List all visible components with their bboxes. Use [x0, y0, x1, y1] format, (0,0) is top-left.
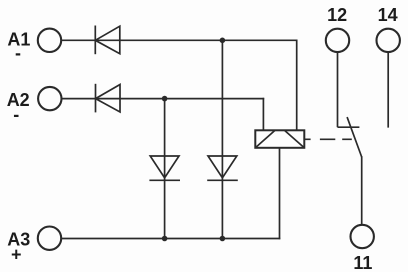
wire from terminal 14 down (open contact): [387, 52, 389, 128]
svg-text:-: -: [13, 104, 19, 124]
wire A1 corner down to coil top-right: [296, 40, 298, 131]
diode D2 triangle: [96, 85, 121, 113]
terminal circle A3: [38, 227, 61, 250]
wire vertical branch through diode V2: [221, 40, 223, 238]
junction dot on A2 line at branch V1: [162, 96, 168, 102]
movable contact arm: [347, 117, 362, 157]
terminal circle A1: [38, 29, 61, 52]
diode D2 cathode bar (A2 line): [95, 84, 97, 113]
diode D1 cathode bar (A1 line): [94, 26, 96, 55]
svg-text:14: 14: [378, 5, 398, 25]
wire vertical branch through diode V1: [164, 99, 166, 239]
terminal circle A2: [38, 87, 61, 110]
diode D1 triangle: [95, 26, 120, 54]
svg-text:-: -: [15, 43, 21, 63]
fixed contact 12 horizontal tip: [338, 126, 360, 128]
junction dot on A1 line at branch V2: [220, 38, 226, 44]
mechanical linkage dashed line: [305, 138, 352, 140]
svg-text:11: 11: [353, 253, 372, 272]
terminal circle 11: [351, 225, 374, 248]
wire arm down to terminal 11: [361, 156, 363, 225]
relay coil K1 body: [255, 130, 304, 148]
junction dot on A3 line at branch V1: [162, 236, 168, 242]
diode V1 cathode bar: [149, 179, 180, 181]
wire A1 horizontal to right corner: [62, 39, 297, 41]
coil diagonal left: [256, 131, 275, 148]
wire A2 horizontal to corner: [62, 98, 264, 100]
svg-text:12: 12: [327, 5, 347, 25]
coil diagonal right: [285, 131, 304, 148]
wire A3 horizontal: [62, 238, 281, 240]
diode V2 triangle (vertical, pointing down): [208, 156, 237, 178]
svg-text:+: +: [11, 245, 22, 265]
junction dot on A3 line at branch V2: [220, 236, 226, 242]
diode V1 triangle (vertical, pointing down): [150, 156, 179, 178]
wire A2 corner down to coil top-left: [262, 98, 264, 131]
wire coil bottom down to A3 line: [279, 148, 281, 240]
diode V2 cathode bar: [207, 179, 238, 181]
terminal circle 12: [326, 29, 349, 52]
wire from terminal 12 down: [337, 52, 339, 127]
terminal circle 14: [377, 29, 400, 52]
